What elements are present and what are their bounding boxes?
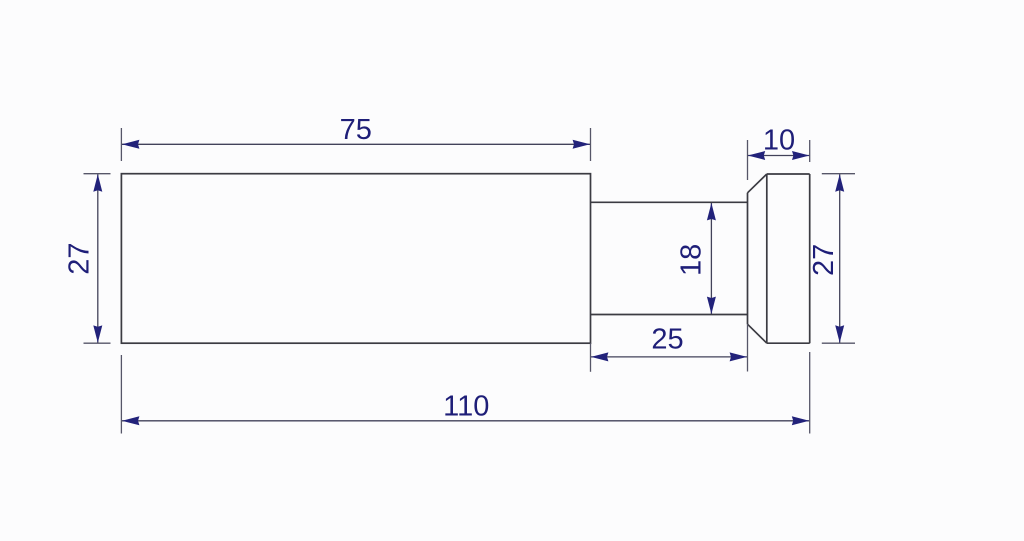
arrowhead 110 right <box>792 416 809 425</box>
neck top edge <box>591 201 748 203</box>
arrowhead 27-right down <box>835 325 844 342</box>
extension tick 27-left top <box>84 173 111 175</box>
extension tick 27-left bottom <box>84 342 111 344</box>
cap top edge <box>767 173 810 175</box>
svg-text:27: 27 <box>808 244 840 276</box>
extension line 10 left <box>747 140 749 180</box>
dimension line 110 <box>122 420 809 422</box>
arrowhead 25 right <box>730 352 747 361</box>
extension line 10 right <box>809 140 811 162</box>
arrowhead 10 left <box>748 151 765 160</box>
arrowhead 110 left <box>122 416 139 425</box>
svg-text:25: 25 <box>651 324 683 356</box>
extension line 75 right <box>590 128 592 161</box>
arrowhead 75 left <box>122 140 139 149</box>
dimension line 18 <box>710 203 712 314</box>
dimension line 75 <box>122 143 590 145</box>
svg-text:75: 75 <box>340 114 372 146</box>
extension line 110 right <box>809 352 811 434</box>
cap left face edge <box>747 193 749 324</box>
extension line 25 left <box>590 343 592 372</box>
extension tick 27-right bottom <box>822 342 855 344</box>
arrowhead 75 right <box>573 140 590 149</box>
cap inner vertical line <box>766 174 768 343</box>
svg-text:10: 10 <box>763 125 795 157</box>
dimension line 10 <box>748 155 810 157</box>
svg-text:27: 27 <box>64 242 96 274</box>
arrowhead 18 down <box>707 297 716 314</box>
cap right edge <box>809 174 811 343</box>
cap bottom edge <box>767 342 810 344</box>
neck bottom edge <box>591 314 748 316</box>
extension line 110 left <box>120 355 122 434</box>
arrowhead 27-left up <box>93 174 102 191</box>
cap top chamfer <box>748 174 767 193</box>
dimension line 25 <box>591 356 747 358</box>
extension line 25 right <box>747 324 749 371</box>
dimension line 27 right <box>839 174 841 342</box>
extension line 75 left <box>120 128 122 161</box>
arrowhead 27-left down <box>93 325 102 342</box>
dimension line 27 left <box>97 174 99 342</box>
main body outline (75x27 cylinder side view) <box>121 174 590 344</box>
cap bottom chamfer <box>748 324 767 343</box>
arrowhead 18 up <box>707 203 716 220</box>
arrowhead 25 left <box>591 352 608 361</box>
svg-text:18: 18 <box>675 244 707 276</box>
svg-text:110: 110 <box>443 390 489 422</box>
arrowhead 10 right <box>792 151 809 160</box>
arrowhead 27-right up <box>835 174 844 191</box>
extension tick 27-right top <box>822 173 855 175</box>
